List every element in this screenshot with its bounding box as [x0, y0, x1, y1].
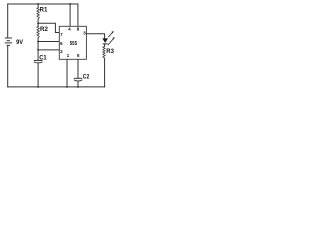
- node pin6 branch: [37, 41, 39, 43]
- wire pin1 drop: [66, 59, 68, 87]
- wire left upper (battery +): [7, 4, 9, 38]
- svg-text:R2: R2: [40, 27, 49, 33]
- node C1 bottom rail: [37, 86, 39, 88]
- svg-text:3: 3: [83, 30, 86, 35]
- wire pin7 link: [38, 23, 59, 32]
- node R1 top rail: [37, 3, 39, 5]
- node R1-R2 junction: [37, 22, 39, 24]
- wire pin3 output: [86, 34, 104, 39]
- resistor R2: [37, 27, 40, 38]
- svg-text:8: 8: [77, 26, 80, 31]
- wire pin8 drop: [77, 4, 79, 26]
- wire C2 to bottom rail: [77, 81, 79, 87]
- wire pin4 drop: [69, 4, 71, 26]
- resistor R1: [37, 8, 40, 19]
- wire top rail: [8, 3, 78, 5]
- svg-text:555: 555: [70, 41, 78, 47]
- svg-text:7: 7: [60, 32, 63, 37]
- node pin4 rail: [69, 3, 71, 5]
- svg-text:R1: R1: [40, 8, 49, 14]
- svg-text:2: 2: [60, 49, 63, 54]
- junction node dots: [37, 3, 79, 88]
- wire R1 top stub: [37, 4, 39, 8]
- capacitor C2: [74, 78, 83, 81]
- wire LED cathode to R3: [104, 44, 106, 47]
- svg-text:R3: R3: [106, 48, 114, 55]
- node pin2 branch: [37, 49, 39, 51]
- node pin1 bottom rail: [66, 86, 68, 88]
- wire bottom rail: [8, 86, 105, 88]
- node C2 bottom rail: [77, 86, 79, 88]
- svg-text:C1: C1: [39, 54, 47, 61]
- resistor R3: [103, 46, 106, 58]
- LED arrow 2: [108, 39, 114, 46]
- LED D1: [102, 31, 114, 45]
- wire R3 to bottom rail: [104, 58, 106, 87]
- wire left lower (battery -): [7, 45, 9, 87]
- svg-text:5: 5: [77, 53, 80, 58]
- svg-text:1: 1: [67, 53, 70, 58]
- svg-text:9V: 9V: [16, 39, 24, 46]
- wire R1 to R2: [37, 19, 39, 27]
- battery B1: [5, 38, 12, 45]
- LED arrow 1: [108, 32, 113, 37]
- wire pin5 to C2: [77, 59, 79, 78]
- svg-text:6: 6: [60, 41, 63, 46]
- svg-text:C2: C2: [83, 73, 90, 80]
- IC U1 555 timer: [59, 26, 86, 59]
- wire C1 to bottom rail: [37, 63, 39, 87]
- svg-text:4: 4: [68, 26, 71, 31]
- wire pin2 link: [38, 49, 59, 51]
- wire R2 bottom to C1: [37, 38, 39, 61]
- wire pin6 link: [38, 41, 59, 43]
- capacitor C1: [34, 61, 43, 63]
